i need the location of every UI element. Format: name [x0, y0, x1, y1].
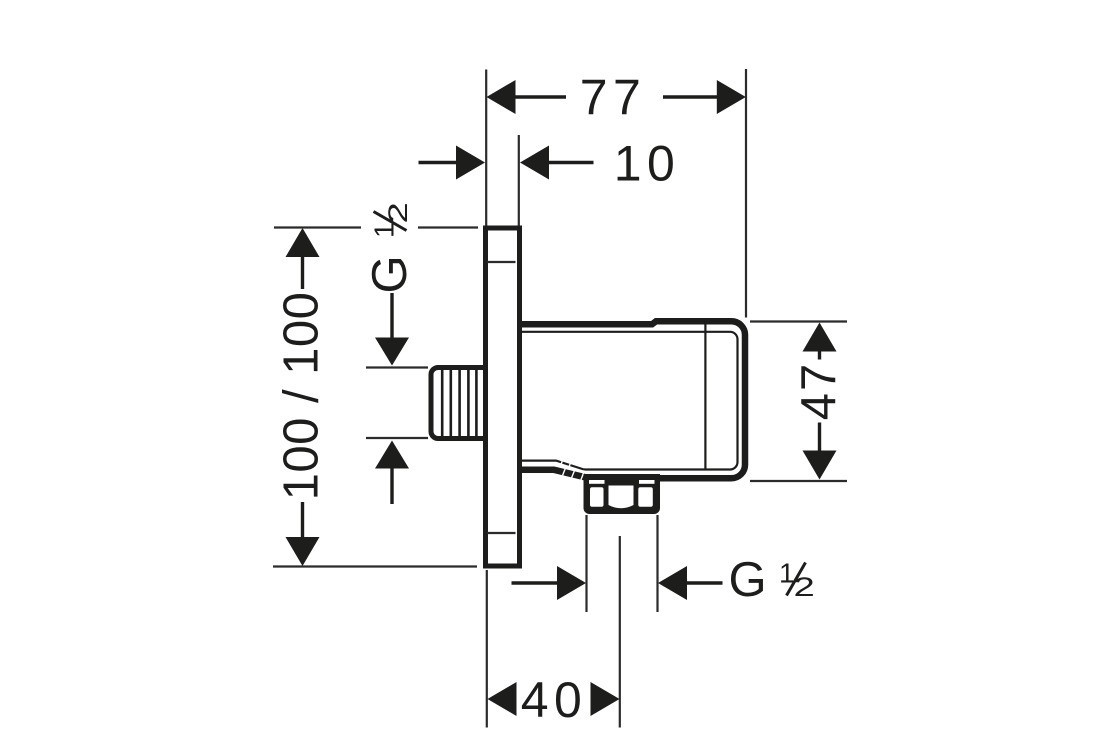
threaded nipple G1/2 — [431, 368, 487, 439]
nipple top extension — [366, 366, 428, 368]
svg-text:G: G — [363, 255, 417, 293]
svg-text:10: 10 — [614, 136, 681, 192]
dimension 10 line — [548, 161, 594, 164]
label G 1/2 top-left (rotated) — [363, 202, 417, 293]
extension line 47 bottom — [750, 480, 847, 482]
extension line 100 top — [274, 226, 361, 228]
nipple thread hatch — [442, 370, 476, 436]
extension line 47 top — [750, 320, 847, 322]
G1/2 bottom leader right — [686, 581, 723, 584]
arrow G1/2 bottom pointing right — [557, 566, 586, 600]
arrow 47 up — [803, 323, 837, 352]
center line — [619, 536, 621, 728]
plate divider top — [487, 261, 516, 263]
arrow 10 right — [520, 146, 549, 180]
nut facet right — [638, 487, 653, 507]
nut extension right — [656, 515, 658, 612]
extension line right (77) — [745, 69, 747, 318]
arrow G1/2 down — [375, 338, 409, 366]
chamfer inner line — [519, 461, 584, 470]
dimension 77 line — [514, 95, 566, 98]
plate divider bottom — [487, 532, 516, 534]
svg-text:G: G — [729, 553, 767, 607]
chamfer ticks — [561, 458, 585, 482]
body outline — [519, 321, 745, 478]
arrow 77 right — [717, 80, 746, 114]
dimension 10 leader left — [419, 161, 459, 164]
svg-text:100 / 100: 100 / 100 — [275, 292, 329, 501]
body inner line top — [519, 332, 738, 470]
svg-text:2: 2 — [794, 572, 815, 602]
nut extension left — [585, 515, 587, 612]
nut slit right — [639, 480, 655, 484]
dimension 100/100 line — [301, 256, 304, 289]
arrow 77 left — [487, 80, 516, 114]
nut facet left — [590, 487, 604, 507]
nut slit left — [589, 480, 605, 484]
G1/2 top leader — [390, 293, 393, 340]
nut facet middle — [609, 486, 634, 509]
arrow 100 down — [286, 537, 320, 566]
extension line left (77/10) — [485, 70, 487, 226]
extension line 100 bottom — [273, 565, 477, 567]
wall plate — [486, 228, 520, 566]
svg-text:77: 77 — [580, 70, 647, 126]
front cap divider — [704, 321, 706, 469]
arrow 47 down — [803, 451, 837, 480]
dimension 47 line — [818, 350, 821, 360]
arrow G1/2 bottom pointing left — [658, 566, 687, 600]
arrow 10 left — [456, 146, 485, 180]
G1/2 bottom leader left — [512, 581, 560, 584]
arrow 40 right — [591, 682, 620, 716]
svg-text:2: 2 — [383, 202, 413, 223]
arrow G1/2 up — [375, 441, 409, 469]
arrow 100 up — [286, 228, 320, 257]
extension 40 left — [486, 570, 488, 728]
svg-text:40: 40 — [521, 672, 588, 728]
svg-text:47: 47 — [792, 362, 846, 421]
arrow 40 left — [488, 682, 517, 716]
hex nut — [584, 474, 661, 514]
G1/2 lower leader — [390, 467, 393, 504]
nipple bottom extension — [366, 437, 428, 439]
extension line 10 right — [518, 135, 520, 226]
